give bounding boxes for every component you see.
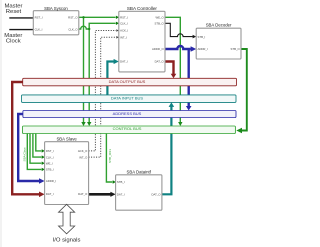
svg-text:ACK_I: ACK_I xyxy=(120,29,128,33)
svg-text:CLK_O: CLK_O xyxy=(68,27,78,31)
bus CONTROL BUS xyxy=(23,126,236,134)
block SBA Syscon xyxy=(33,6,79,35)
svg-text:ADDR_I: ADDR_I xyxy=(46,179,56,183)
wire DAT_O red: controller DAT_O down to data output bus xyxy=(165,62,176,79)
wire DAT_I teal: data input bus up to controller DAT_I xyxy=(107,59,118,95)
svg-text:DATA OUTPUT BUS: DATA OUTPUT BUS xyxy=(109,79,146,84)
svg-text:STB_OX1: STB_OX1 xyxy=(108,149,112,163)
svg-text:SBA Cbus: SBA Cbus xyxy=(23,147,27,162)
block SBA Dataintf xyxy=(116,170,162,211)
svg-text:Reset: Reset xyxy=(6,9,22,15)
svg-text:RST_I: RST_I xyxy=(35,16,43,20)
svg-text:INT_I: INT_I xyxy=(120,36,127,40)
svg-text:SBA Syscon: SBA Syscon xyxy=(44,6,68,11)
bus DATA INPUT BUS xyxy=(22,95,237,103)
wire control bus to slave WE_I xyxy=(30,134,45,165)
svg-text:DAT_I: DAT_I xyxy=(117,193,125,197)
bus ADDRESS BUS xyxy=(23,111,236,118)
svg-text:STB_O: STB_O xyxy=(231,47,241,51)
wire STB_O green: decoder STB_O down right side into control bus right end xyxy=(236,49,247,133)
I/O signals double arrow xyxy=(59,204,75,234)
wire INT dashed: slave INT_O up to controller INT_I xyxy=(89,36,119,157)
svg-text:SBA Decoder: SBA Decoder xyxy=(206,23,232,28)
wire STB_OX green: control bus down to dataintf STB_I xyxy=(106,134,115,184)
wire DAT red: data output bus to slave DAT_I xyxy=(12,82,44,197)
svg-text:SBA Slave: SBA Slave xyxy=(56,136,77,141)
wire ADDR blue: address bus to slave ADDR_I xyxy=(18,114,44,184)
wire master clock input xyxy=(9,29,33,31)
svg-text:CLK_I: CLK_I xyxy=(120,22,128,26)
svg-text:ACK_O: ACK_O xyxy=(78,149,88,153)
wire control bus to slave CLK_I xyxy=(33,134,45,159)
wire control bus to slave RST_I xyxy=(36,134,45,153)
svg-text:DAT_I: DAT_I xyxy=(46,192,54,196)
wire DAT black: slave DAT_O to dataintf DAT_I xyxy=(89,192,116,197)
svg-text:WE_O: WE_O xyxy=(155,16,164,20)
wire CLK green: syscon CLK_O to controller CLK_I (hop over RST) and down to control bus xyxy=(79,22,119,126)
wire master reset input xyxy=(9,17,33,19)
svg-text:STB_I: STB_I xyxy=(46,168,54,172)
svg-text:RST_O: RST_O xyxy=(68,16,78,20)
svg-text:SBA Dataintf: SBA Dataintf xyxy=(127,170,152,175)
bus DATA OUTPUT BUS xyxy=(23,78,237,86)
wire control bus to slave STB_I xyxy=(27,134,45,172)
faint page-edge line xyxy=(0,0,2,247)
svg-text:DAT_O: DAT_O xyxy=(155,60,165,64)
svg-text:STB_I: STB_I xyxy=(117,180,125,184)
svg-text:RST_I: RST_I xyxy=(46,149,54,153)
block SBA Slave xyxy=(45,136,89,204)
svg-text:CONTROL BUS: CONTROL BUS xyxy=(113,126,142,131)
wire ACK dashed: slave ACK_O up to controller ACK_I xyxy=(89,29,119,151)
wire ADDR blue: controller ADDR_O to decoder ADDR_I (hop over WE) and down to address bus xyxy=(165,46,196,111)
wire DAT teal: dataintf DAT_O up into data input bus xyxy=(162,102,174,194)
svg-text:DAT_I: DAT_I xyxy=(120,60,128,64)
wire WE green: controller WE_O down to control bus xyxy=(165,17,183,126)
svg-text:DATA INPUT BUS: DATA INPUT BUS xyxy=(111,96,144,101)
block SBA Controller xyxy=(119,6,165,72)
svg-text:SBA Controller: SBA Controller xyxy=(127,6,158,11)
svg-text:ADDR_I: ADDR_I xyxy=(198,47,208,51)
svg-text:INT_O: INT_O xyxy=(79,155,88,159)
label Master Clock xyxy=(4,33,22,45)
svg-text:ADDR_O: ADDR_O xyxy=(152,47,164,51)
svg-text:DAT_O: DAT_O xyxy=(78,192,88,196)
svg-text:CLK_I: CLK_I xyxy=(46,155,54,159)
svg-text:STB_I: STB_I xyxy=(198,35,206,39)
label Master Reset xyxy=(4,4,22,15)
svg-text:DAT_O: DAT_O xyxy=(151,193,161,197)
svg-text:Clock: Clock xyxy=(6,39,21,45)
svg-text:STB_O: STB_O xyxy=(155,22,165,26)
block SBA Decoder xyxy=(196,23,241,59)
svg-text:CLK_I: CLK_I xyxy=(35,27,43,31)
wire STB black: controller STB_O to decoder STB_I (hop over WE) xyxy=(165,23,196,38)
svg-text:I/O signals: I/O signals xyxy=(53,238,81,244)
svg-text:WE_I: WE_I xyxy=(46,161,53,165)
wire RST green: syscon RST_O to controller RST_I and down to control bus xyxy=(79,16,119,126)
svg-text:RST_I: RST_I xyxy=(120,16,128,20)
svg-text:ADDRESS BUS: ADDRESS BUS xyxy=(113,111,142,116)
